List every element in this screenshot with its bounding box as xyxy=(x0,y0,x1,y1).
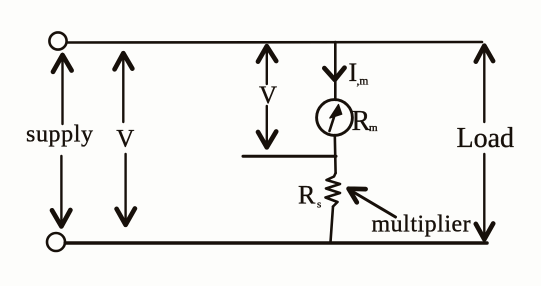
bottom wire xyxy=(65,241,487,245)
label R_s xyxy=(298,181,321,211)
label multiplier xyxy=(372,211,472,237)
meter U1 needle arrow xyxy=(330,105,342,132)
top wire xyxy=(67,41,482,44)
svg-text:R: R xyxy=(352,106,371,137)
label V1 xyxy=(116,126,134,153)
svg-text:Load: Load xyxy=(457,123,515,154)
svg-text:supply: supply xyxy=(26,122,94,148)
meter U1 (circle) xyxy=(317,100,353,136)
supply voltage arrow (down half) xyxy=(52,156,70,226)
wire (branch, meter to resistor) xyxy=(333,135,336,173)
label Load xyxy=(457,123,515,154)
current arrow I_m (arrowhead on branch) xyxy=(324,68,344,80)
label V2 xyxy=(259,82,277,109)
terminal T1 (top-left) xyxy=(49,32,66,49)
pointer arrow (to R_s, multiplier callout) xyxy=(349,189,396,217)
svg-text:V: V xyxy=(116,126,134,153)
svg-text:s: s xyxy=(317,198,321,210)
wire (branch, resistor to bottom wire) xyxy=(331,207,334,243)
label R_m xyxy=(352,106,379,137)
load arrow (down half) xyxy=(476,154,493,239)
svg-text:R: R xyxy=(298,181,316,210)
svg-text:multiplier: multiplier xyxy=(372,211,472,237)
voltage arrow V2 (up half) xyxy=(258,46,276,84)
resistor R_s (zigzag) xyxy=(326,173,341,207)
label I_m xyxy=(349,58,369,88)
tap wire (horizontal) xyxy=(243,155,336,158)
wire (branch, top wire to meter) xyxy=(334,42,337,100)
terminal T2 (bottom-left) xyxy=(47,233,65,251)
svg-text:V: V xyxy=(259,82,277,109)
voltage arrow V2 (down half) xyxy=(258,106,276,147)
svg-text:m: m xyxy=(369,122,378,134)
voltage arrow V1 (up half) xyxy=(115,53,133,122)
voltage arrow V1 (down half) xyxy=(117,154,135,225)
supply voltage arrow (up half) xyxy=(53,55,72,124)
load arrow (up half) xyxy=(476,46,493,122)
svg-text:,m: ,m xyxy=(357,76,369,88)
label supply xyxy=(26,122,94,148)
